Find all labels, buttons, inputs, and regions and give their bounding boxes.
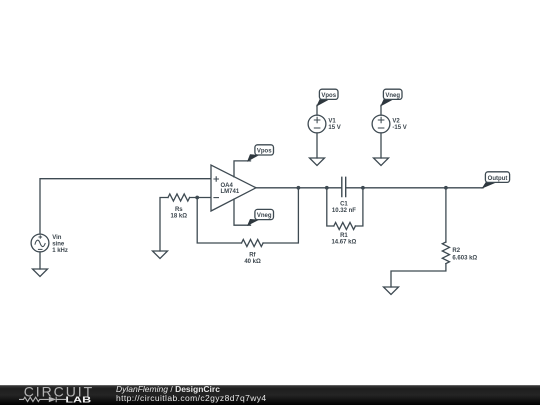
wire Vin bottom to ground xyxy=(39,252,41,269)
svg-text:OA4: OA4 xyxy=(221,183,234,189)
label Vin value xyxy=(52,235,68,254)
label Rs value xyxy=(171,207,188,219)
svg-text:15 V: 15 V xyxy=(328,125,340,131)
wire Rs left leg to ground xyxy=(160,198,168,252)
label V1 value xyxy=(328,119,340,131)
resistor Rf xyxy=(242,239,264,246)
wire Rf to output node xyxy=(263,188,298,243)
svg-text:V1: V1 xyxy=(328,119,336,125)
svg-text:LM741: LM741 xyxy=(221,189,240,195)
label flag text Vpos op-amp xyxy=(257,149,272,155)
label flag text Vpos V1 xyxy=(321,93,336,99)
svg-text:40 kΩ: 40 kΩ xyxy=(244,259,261,265)
svg-text:Vneg: Vneg xyxy=(257,213,272,219)
ground (under V2) xyxy=(374,158,389,166)
label R2 value xyxy=(452,248,477,261)
flag Vpos (op-amp supply) xyxy=(247,145,274,162)
svg-text:18 kΩ: 18 kΩ xyxy=(171,213,188,219)
wire op-amp output to C1 left plate xyxy=(256,187,342,189)
resistor Rs xyxy=(168,194,190,201)
ground (under V1) xyxy=(310,158,325,166)
svg-text:Vneg: Vneg xyxy=(385,93,400,99)
svg-text:V2: V2 xyxy=(392,119,400,125)
wire V1 top xyxy=(316,105,318,115)
svg-text:Vpos: Vpos xyxy=(321,93,336,99)
wire feedback: node down and across to Rf xyxy=(197,198,241,244)
svg-text:LAB: LAB xyxy=(65,394,91,404)
ground (under R2) xyxy=(384,287,399,295)
svg-text:Output: Output xyxy=(488,176,508,182)
svg-text:Vpos: Vpos xyxy=(257,149,272,155)
label V2 value xyxy=(392,119,406,131)
label Rf value xyxy=(244,253,261,265)
wire V2 bottom to ground xyxy=(380,133,382,158)
resistor R2 xyxy=(442,242,449,264)
svg-text:R1: R1 xyxy=(340,233,348,239)
op-amp OA4 LM741 xyxy=(211,165,256,211)
label flag text Vneg V2 xyxy=(385,93,400,99)
wire Rs to op-amp - input xyxy=(190,197,211,199)
svg-text:6.603 kΩ: 6.603 kΩ xyxy=(452,255,477,261)
voltage source V2 xyxy=(372,115,390,133)
flag Output xyxy=(482,172,510,189)
svg-text:sine: sine xyxy=(52,242,65,248)
wire R1 right leg xyxy=(355,188,363,226)
label C1 value xyxy=(332,202,356,214)
svg-text:-15 V: -15 V xyxy=(392,125,406,131)
svg-text:R2: R2 xyxy=(452,248,460,254)
svg-text:C1: C1 xyxy=(340,202,348,208)
wire R2 bottom to ground xyxy=(391,264,446,287)
flag Vneg (op-amp supply) xyxy=(247,209,274,226)
capacitor C1 xyxy=(342,177,346,196)
wire op-amp V- pin down xyxy=(234,199,251,225)
wire V1 bottom to ground xyxy=(316,133,318,158)
label OA4 LM741 xyxy=(221,183,240,195)
voltage source V1 xyxy=(308,115,326,133)
wire V2 top xyxy=(380,105,382,115)
node junction at inverting input xyxy=(195,196,199,200)
voltage source Vin (sine) xyxy=(31,234,49,252)
ground (under Vin) xyxy=(33,269,48,277)
svg-text:Rs: Rs xyxy=(175,207,183,213)
svg-text:http://circuitlab.com/c2gyz8d7: http://circuitlab.com/c2gyz8d7q7wy4 xyxy=(116,393,267,403)
footer bar xyxy=(0,385,540,405)
svg-text:Vin: Vin xyxy=(52,235,62,241)
flag Vneg (V2) xyxy=(380,89,402,106)
svg-text:14.67 kΩ: 14.67 kΩ xyxy=(331,240,356,246)
node junction C1/R1 right xyxy=(361,186,365,190)
label R1 value xyxy=(331,233,356,246)
wire R1 left leg xyxy=(327,188,334,226)
wire Vin to op-amp + input xyxy=(40,179,211,234)
label flag text Vneg op-amp xyxy=(257,213,272,219)
svg-text:1 kHz: 1 kHz xyxy=(52,248,68,254)
label flag text Output xyxy=(488,176,508,182)
wire C1 right plate to R2/Output xyxy=(346,187,483,189)
node junction C1/R1 left xyxy=(325,186,329,190)
node junction at R2 xyxy=(444,186,448,190)
ground (under Rs leg) xyxy=(153,251,168,259)
svg-text:10.32 nF: 10.32 nF xyxy=(332,208,356,214)
wire node down to R2 xyxy=(445,188,447,242)
footer author/title text xyxy=(116,384,267,403)
wire op-amp V+ pin up xyxy=(234,161,251,177)
flag Vpos (V1) xyxy=(316,89,338,106)
resistor R1 xyxy=(334,222,356,229)
node junction feedback/output xyxy=(297,186,301,190)
logo CIRCUIT LAB xyxy=(19,383,94,404)
svg-text:Rf: Rf xyxy=(249,253,256,259)
